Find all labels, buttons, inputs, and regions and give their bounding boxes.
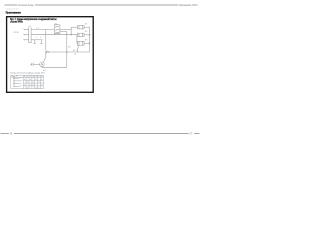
grid row 3	[23, 82, 43, 84]
figure frame	[7, 17, 94, 93]
svg-text:х: х	[41, 79, 42, 81]
motor M circle	[40, 62, 45, 67]
switch lower lead to motor	[43, 53, 45, 62]
junction dot switch mid	[44, 51, 47, 54]
switch blade	[46, 50, 48, 53]
S1 inner contact 2	[55, 29, 59, 30]
wire mains input L1	[24, 29, 29, 31]
schematic labels	[13, 23, 88, 72]
connector X1 bottom bar	[28, 42, 32, 44]
contact branch 3	[14, 82, 22, 85]
stub left bus to K3	[76, 42, 79, 44]
grid row 4	[23, 85, 43, 87]
contact branch 2	[14, 79, 22, 82]
terminal tick 2	[24, 34, 25, 36]
S1 inner contact 3	[55, 32, 59, 33]
svg-text:х: х	[36, 87, 37, 89]
grid col 6	[37, 75, 39, 89]
wire earth branch	[31, 39, 42, 41]
terminal tick 3	[24, 39, 25, 41]
svg-text:х: х	[41, 85, 42, 87]
stub left bus to K2	[76, 34, 79, 36]
wire mid return	[46, 51, 90, 53]
relay right bus	[89, 27, 91, 52]
wire earth stub A drop	[34, 40, 36, 44]
table outer box	[11, 75, 44, 89]
header rule	[4, 4, 197, 6]
grid col 2	[25, 75, 27, 89]
svg-text:Е3: Е3	[85, 39, 87, 41]
svg-text:Таблица включения конфорок и ш: Таблица включения конфорок и шкафа	[10, 71, 41, 74]
motor feed vertical	[66, 32, 68, 68]
svg-text:S2: S2	[16, 76, 18, 78]
wire neutral branch	[31, 34, 77, 36]
svg-text:Поз.: Поз.	[12, 76, 16, 78]
S1 inner contact 1	[55, 26, 59, 27]
svg-text:х: х	[27, 82, 28, 84]
junction dot K3 bus	[88, 42, 91, 45]
svg-text:S1: S1	[55, 23, 57, 25]
thermostat drop below K3	[77, 45, 79, 47]
capacitor plate 1	[31, 63, 33, 66]
junction dot K2 bus	[88, 33, 91, 36]
stub to K1 left	[71, 26, 77, 28]
switch vertical drop	[45, 30, 47, 51]
svg-text:В2: В2	[68, 46, 70, 48]
stub K1 right to bus	[84, 26, 89, 28]
svg-text:Х1: Х1	[29, 26, 31, 28]
svg-text:1: 1	[36, 37, 37, 39]
svg-text:Электроплиты бытовые: Электроплиты бытовые	[18, 5, 34, 7]
wire mains input L2	[24, 34, 29, 36]
earth stub A bar	[34, 43, 36, 45]
wire phase to program switch	[31, 29, 54, 31]
svg-text:2: 2	[40, 37, 41, 39]
motor inner mark	[41, 63, 43, 65]
grid col 7	[40, 75, 42, 89]
program switch box S1	[54, 25, 60, 34]
capacitor stub	[30, 63, 32, 65]
svg-text:В1: В1	[48, 52, 50, 54]
contact branch 1	[14, 76, 22, 79]
grid col 5	[34, 75, 36, 89]
contact branch 4	[14, 85, 22, 88]
stub K3 right to bus	[84, 42, 89, 44]
wire mains input L3	[24, 39, 29, 41]
K3 inner ticks	[79, 41, 83, 45]
junction dot motor feed mid	[65, 51, 68, 54]
contact dots	[13, 77, 16, 80]
svg-text:х: х	[36, 79, 37, 81]
capacitor lead	[33, 63, 39, 65]
grid col 4	[31, 75, 33, 89]
footer rule	[1, 132, 200, 134]
svg-text:х: х	[24, 85, 25, 87]
stub K2 right to bus	[84, 34, 89, 36]
earth stub B bar	[40, 43, 42, 45]
svg-text:Е2: Е2	[85, 31, 87, 33]
thermostat blade	[77, 48, 78, 51]
connector X1 right blade	[30, 27, 32, 42]
svg-text:х: х	[30, 79, 31, 81]
svg-text:Приложения: Приложения	[179, 5, 192, 7]
K2 inner ticks	[79, 33, 83, 36]
svg-text:«Лысьва ЭП403»: «Лысьва ЭП403»	[10, 20, 23, 24]
relay left bus	[76, 35, 78, 44]
svg-text:х: х	[38, 82, 39, 84]
grid col 3	[28, 75, 30, 89]
wire S1 output to corner	[60, 29, 71, 31]
svg-text:х: х	[30, 85, 31, 87]
heater K1 box	[78, 26, 85, 29]
contact chain vertical	[13, 77, 15, 86]
corner drop x71	[70, 27, 72, 35]
svg-text:х: х	[33, 82, 34, 84]
svg-text:х: х	[33, 85, 34, 87]
svg-text:~220 В: ~220 В	[13, 32, 20, 34]
svg-text:1,5: 1,5	[36, 28, 39, 30]
table pane divider	[22, 75, 24, 89]
svg-text:х: х	[24, 79, 25, 81]
capacitor plate 2	[32, 63, 34, 66]
junction dot corner x71	[70, 33, 73, 36]
wire motor bottom	[42, 66, 67, 69]
table cell marks	[12, 76, 44, 89]
grid row 1	[11, 77, 44, 79]
thermostat lower stub	[76, 50, 78, 52]
wire S1 second output	[60, 31, 67, 33]
svg-text:х: х	[38, 87, 39, 89]
connector X1 left blade	[28, 27, 30, 42]
K1 inner ticks	[79, 26, 83, 29]
terminal tick 1	[24, 29, 25, 31]
wire earth stub B drop	[40, 40, 42, 44]
svg-text:Приложение: Приложение	[6, 10, 21, 14]
heater K2 box	[78, 33, 85, 36]
grid row 2	[23, 79, 43, 81]
svg-text:Е1: Е1	[85, 24, 87, 26]
heater K3 box	[78, 41, 85, 45]
svg-text:х: х	[27, 87, 28, 89]
